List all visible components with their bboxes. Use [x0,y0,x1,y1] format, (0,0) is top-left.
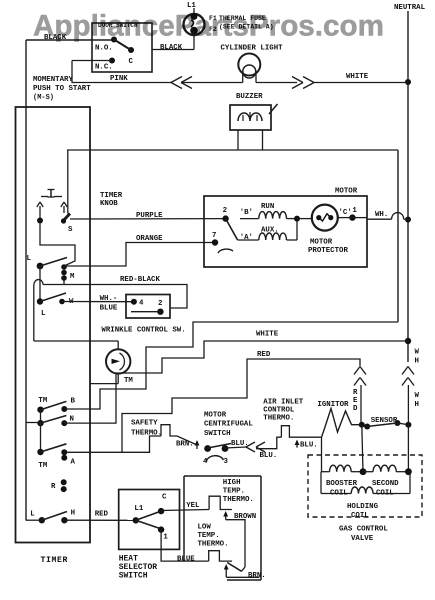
svg-text:ORANGE: ORANGE [136,235,163,243]
svg-text:1: 1 [163,534,168,542]
svg-text:M: M [70,273,75,281]
svg-text:4: 4 [203,458,208,466]
svg-text:IGNITOR: IGNITOR [317,401,349,409]
svg-text:WHITE: WHITE [256,331,279,339]
svg-text:NEUTRAL: NEUTRAL [394,4,426,12]
svg-text:BOOSTER: BOOSTER [326,480,358,488]
svg-text:MOTOR: MOTOR [204,412,227,420]
svg-text:RUN: RUN [261,203,274,211]
svg-text:L: L [41,310,46,318]
svg-text:BLUE: BLUE [177,555,195,563]
svg-text:AUX.: AUX. [261,227,279,235]
svg-text:BLACK: BLACK [160,44,183,52]
svg-text:COIL: COIL [330,490,348,498]
svg-text:N.O.: N.O. [95,45,113,53]
svg-text:THERMO.: THERMO. [223,496,254,504]
svg-text:PUSH TO START: PUSH TO START [33,85,91,93]
svg-text:D: D [353,405,358,413]
svg-text:MOTOR: MOTOR [335,188,358,196]
svg-text:BLU.: BLU. [260,452,278,460]
svg-text:CYLINDER LIGHT: CYLINDER LIGHT [221,45,284,53]
svg-text:BRN.: BRN. [248,572,266,580]
svg-text:'B': 'B' [240,209,253,217]
svg-text:RED-BLACK: RED-BLACK [120,276,160,284]
svg-text:LOW: LOW [198,524,212,532]
svg-text:MOMENTARY: MOMENTARY [33,76,73,84]
svg-text:TIMER: TIMER [100,192,123,200]
svg-text:CONTROL: CONTROL [263,407,295,415]
svg-text:TM: TM [124,377,133,385]
svg-text:TM: TM [38,462,47,470]
svg-text:E: E [353,397,358,405]
svg-text:BLUE: BLUE [100,305,118,313]
svg-text:KNOB: KNOB [100,200,118,208]
svg-text:THERMO.: THERMO. [198,541,229,549]
svg-text:C: C [162,494,167,502]
svg-text:R: R [51,483,56,491]
svg-text:SWITCH: SWITCH [119,572,148,581]
svg-text:BROWN: BROWN [234,513,256,521]
svg-text:2: 2 [223,207,227,215]
svg-text:RED: RED [257,351,271,359]
svg-text:TM: TM [38,397,47,405]
svg-text:TEMP.: TEMP. [198,532,220,540]
svg-text:THERMO.: THERMO. [131,430,162,438]
svg-text:C: C [129,58,134,66]
svg-text:PINK: PINK [110,75,128,83]
svg-text:BRN.: BRN. [176,441,194,449]
svg-text:SAFETY: SAFETY [131,420,158,428]
svg-text:H: H [415,401,419,409]
svg-text:AppliancePartsPros.com: AppliancePartsPros.com [33,10,384,43]
svg-text:H: H [71,509,75,517]
svg-text:SWITCH: SWITCH [204,430,231,438]
svg-text:COIL: COIL [376,490,394,498]
svg-text:VALVE: VALVE [351,535,374,543]
svg-text:S: S [68,226,73,234]
svg-text:1: 1 [352,207,357,215]
svg-text:WRINKLE CONTROL SW.: WRINKLE CONTROL SW. [101,327,185,335]
svg-text:4: 4 [139,300,144,308]
svg-text:BUZZER: BUZZER [236,93,263,101]
svg-text:CENTRIFUGAL: CENTRIFUGAL [204,421,253,429]
svg-text:L: L [30,511,35,519]
svg-text:MOTOR: MOTOR [310,239,333,247]
svg-text:7: 7 [212,232,216,240]
svg-text:YEL: YEL [186,502,200,510]
svg-text:RED: RED [95,511,109,519]
svg-text:SECOND: SECOND [372,480,399,488]
svg-text:THERMO.: THERMO. [263,415,294,423]
svg-text:3: 3 [224,458,229,466]
svg-text:COIL: COIL [351,512,369,520]
svg-text:WHITE: WHITE [346,73,369,81]
svg-text:TEMP.: TEMP. [223,488,245,496]
svg-text:L1: L1 [134,505,143,513]
svg-text:H: H [415,358,419,366]
svg-text:2: 2 [158,300,162,308]
svg-text:N: N [70,416,74,424]
svg-text:WH.: WH. [375,211,388,219]
svg-text:TIMER: TIMER [41,556,69,565]
svg-text:HIGH: HIGH [223,479,241,487]
svg-text:'A': 'A' [240,234,253,242]
svg-text:(M-S): (M-S) [33,94,54,102]
svg-text:BLU.: BLU. [300,441,318,449]
svg-text:GAS CONTROL: GAS CONTROL [339,526,388,534]
svg-text:PROTECTOR: PROTECTOR [308,247,348,255]
svg-text:A: A [71,459,76,467]
svg-text:AIR INLET: AIR INLET [263,399,303,407]
svg-text:HOLDING: HOLDING [347,503,379,511]
svg-text:L: L [27,255,32,263]
svg-text:B: B [71,397,76,405]
svg-text:N.C.: N.C. [95,64,113,72]
svg-text:W: W [415,349,420,357]
svg-text:W: W [415,392,420,400]
svg-text:R: R [353,389,358,397]
